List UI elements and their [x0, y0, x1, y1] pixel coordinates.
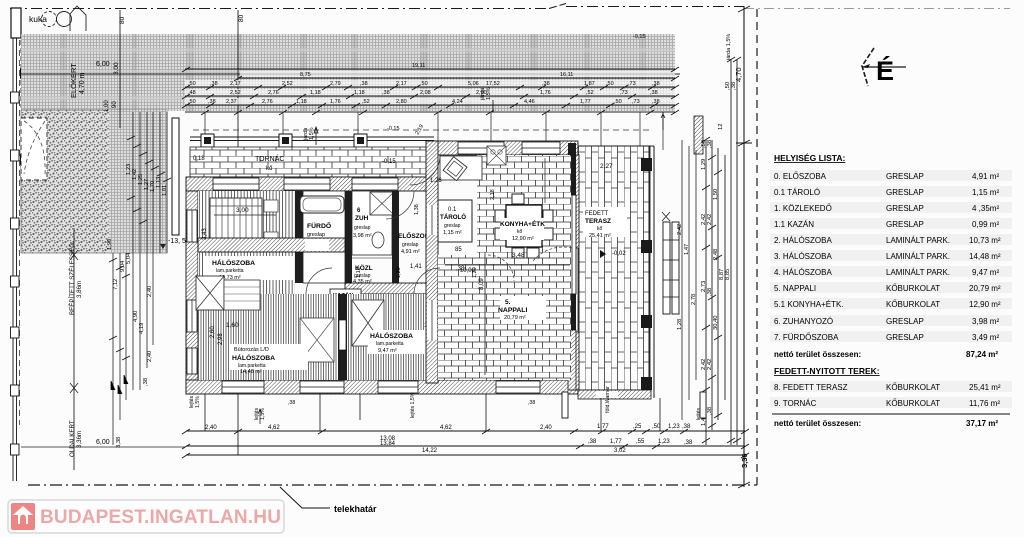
svg-text:2,40: 2,40	[205, 425, 217, 431]
compass north arrow	[862, 48, 906, 86]
svg-text:,50: ,50	[420, 81, 428, 87]
left horizontal wall	[198, 238, 345, 252]
svg-text:1,23: 1,23	[658, 439, 670, 445]
boundary faint continuation to right edge	[744, 8, 1010, 10]
bedroom4 labels	[368, 330, 440, 354]
svg-text:3,86m: 3,86m	[76, 281, 83, 298]
svg-text:3,38: 3,38	[116, 437, 122, 448]
svg-text:KŐBURKOLAT: KŐBURKOLAT	[886, 383, 940, 392]
svg-text:lejtés 1,5%: lejtés 1,5%	[410, 392, 416, 418]
svg-text:FÜRDŐ: FÜRDŐ	[307, 221, 331, 230]
right dimension line 4,70 solid vertical	[743, 6, 745, 487]
kitchen table	[506, 205, 542, 247]
svg-text:2,60: 2,60	[210, 326, 216, 338]
svg-text:1,47: 1,47	[684, 244, 690, 255]
svg-text:14,22: 14,22	[422, 448, 438, 454]
svg-text:1,87: 1,87	[584, 81, 595, 87]
svg-text:7. FÜRDŐSZOBA: 7. FÜRDŐSZOBA	[774, 333, 839, 342]
svg-text:1,60: 1,60	[226, 322, 239, 329]
svg-text:1,01: 1,01	[162, 185, 168, 196]
bedroom4 floor	[347, 294, 480, 380]
svg-text:ZUH: ZUH	[355, 215, 369, 222]
svg-text:0.1 TÁROLÓ: 0.1 TÁROLÓ	[774, 188, 820, 197]
svg-text:13,84: 13,84	[380, 441, 396, 447]
right posts columns detail	[663, 222, 679, 314]
room 2 haloszoba floor parquet	[198, 191, 295, 238]
column axis verticals	[205, 112, 663, 150]
room list table	[772, 153, 1010, 428]
west wall	[186, 191, 198, 394]
gable mark	[70, 6, 86, 31]
svg-text:,38: ,38	[542, 81, 550, 87]
terrace east edge double line	[649, 146, 654, 398]
svg-text:,55: ,55	[636, 439, 645, 445]
svg-text:OLDALKERT: OLDALKERT	[69, 420, 76, 457]
svg-text:KŐBURKOLAT: KŐBURKOLAT	[886, 399, 940, 408]
wardrobe right of b4	[450, 300, 478, 352]
svg-text:2,52: 2,52	[282, 81, 293, 87]
svg-text:1. KÖZLEKEDŐ: 1. KÖZLEKEDŐ	[774, 204, 832, 213]
wall bedroom3/4	[338, 294, 347, 380]
svg-text:1,5%: 1,5%	[195, 396, 201, 408]
svg-text:greslap: greslap	[307, 232, 325, 238]
svg-text:4,70: 4,70	[734, 67, 743, 82]
svg-text:6. ZUHANYOZÓ: 6. ZUHANYOZÓ	[774, 317, 833, 326]
svg-text:,38: ,38	[528, 400, 535, 406]
svg-text:2,40: 2,40	[540, 425, 552, 431]
svg-text:3,00: 3,00	[113, 62, 120, 75]
svg-text:-0,02: -0,02	[612, 251, 626, 257]
upper dim cluster verticals	[133, 112, 167, 390]
window openings north wall	[213, 178, 398, 190]
south wall	[186, 380, 578, 394]
svg-text:LAMINÁLT PARK.: LAMINÁLT PARK.	[886, 252, 950, 261]
svg-text:greslap: greslap	[444, 223, 461, 229]
svg-text:2,37: 2,37	[226, 99, 237, 105]
svg-text:14,48 m²: 14,48 m²	[240, 369, 262, 375]
svg-text:GRESLAP: GRESLAP	[886, 204, 924, 213]
lower gate dashed rect	[21, 155, 52, 215]
tick on 4,70 line top	[736, 6, 752, 488]
svg-text:3,49 m²: 3,49 m²	[972, 333, 999, 342]
svg-text:lam.parketta: lam.parketta	[376, 341, 404, 347]
svg-text:80: 80	[238, 14, 245, 22]
svg-text:1,23: 1,23	[668, 424, 680, 430]
kitchen label	[500, 218, 544, 240]
dim line at band bottom	[185, 111, 675, 113]
svg-text:5,06: 5,06	[468, 81, 479, 87]
kuka bins circles	[42, 12, 57, 27]
svg-text:0.1: 0.1	[448, 207, 457, 213]
porch railing top	[190, 137, 434, 141]
svg-text:TORNÁC: TORNÁC	[255, 154, 284, 163]
svg-text:1,15 m²: 1,15 m²	[443, 230, 462, 236]
svg-text:,38: ,38	[684, 440, 693, 446]
door swing arcs	[306, 155, 572, 294]
svg-text:3,00: 3,00	[236, 207, 249, 214]
svg-text:-0,15: -0,15	[382, 159, 396, 165]
svg-text:1,76: 1,76	[540, 90, 551, 96]
bedroom3 labels	[230, 344, 308, 370]
svg-text:2,52: 2,52	[230, 90, 241, 96]
svg-text:,38: ,38	[288, 400, 295, 406]
svg-text:,38: ,38	[682, 424, 691, 430]
svg-text:2,76: 2,76	[262, 99, 273, 105]
bottom left horizontal dim line	[21, 446, 185, 448]
porch TORNAC brick floor	[190, 147, 434, 177]
svg-text:1,15 m²: 1,15 m²	[972, 188, 999, 197]
white strips behind chain numbers	[185, 71, 675, 105]
svg-text:HÁLÓSZOBA: HÁLÓSZOBA	[232, 353, 275, 362]
svg-text:8. FEDETT TERASZ: 8. FEDETT TERASZ	[774, 383, 848, 392]
svg-text:,38: ,38	[360, 81, 368, 87]
svg-text:2,98: 2,98	[218, 333, 224, 345]
left boundary dashed overlay	[19, 30, 21, 425]
svg-text:1,5%: 1,5%	[486, 87, 492, 100]
west fence slot	[172, 118, 179, 235]
svg-text:4,62: 4,62	[440, 425, 452, 431]
svg-text:1,38: 1,38	[414, 204, 420, 215]
plot boundary telekhatar top dash-dot line	[10, 4, 744, 9]
svg-text:,38: ,38	[652, 81, 660, 87]
right vertical dimension chain	[706, 60, 737, 445]
svg-text:1,28: 1,28	[677, 319, 683, 330]
left fence double line	[13, 33, 17, 481]
svg-text:17,52: 17,52	[486, 81, 500, 87]
svg-text:4,24: 4,24	[452, 99, 463, 105]
svg-text:,38: ,38	[208, 99, 216, 105]
kitchen counter top	[440, 156, 482, 180]
svg-text:5.: 5.	[505, 299, 511, 306]
svg-text:kő: kő	[517, 229, 523, 235]
kitchen north wall	[434, 141, 578, 155]
svg-text:1,26: 1,26	[430, 178, 442, 184]
wall between nappali and terrace	[571, 155, 579, 390]
bathtub	[300, 196, 344, 213]
svg-text:1,18: 1,18	[354, 90, 365, 96]
svg-text:4,46: 4,46	[524, 99, 535, 105]
svg-text:GRESLAP: GRESLAP	[886, 317, 924, 326]
svg-text:HÁLÓSZOBA: HÁLÓSZOBA	[370, 331, 413, 340]
top-left corner post	[11, 8, 21, 38]
wc	[372, 232, 384, 248]
svg-text:12,90 m²: 12,90 m²	[969, 300, 1001, 309]
svg-text:,38: ,38	[210, 81, 218, 87]
chain numbers row labels	[188, 63, 660, 105]
svg-text:3,43: 3,43	[202, 228, 208, 240]
lower left bedroom3 floor	[198, 294, 338, 380]
svg-text:1,20: 1,20	[396, 267, 402, 278]
svg-text:2,76: 2,76	[268, 90, 279, 96]
svg-text:1,00: 1,00	[104, 100, 110, 112]
north wall left section with hatch	[186, 177, 434, 191]
svg-text:greslap: greslap	[402, 242, 419, 248]
middle horizontal wall	[345, 283, 488, 294]
svg-text:1,29: 1,29	[701, 159, 707, 170]
svg-text:3,98 m²: 3,98 m²	[972, 317, 999, 326]
dark chimney block	[568, 143, 576, 195]
svg-text:8,85: 8,85	[725, 269, 731, 280]
svg-text:25,41 m²: 25,41 m²	[969, 383, 1001, 392]
svg-text:GRESLAP: GRESLAP	[886, 220, 924, 229]
svg-text:1,76: 1,76	[330, 99, 341, 105]
svg-text:0,99 m²: 0,99 m²	[972, 220, 999, 229]
svg-text:,50: ,50	[606, 81, 614, 87]
verticals from house to bottom chain	[205, 394, 660, 431]
X hatch square in b4	[352, 300, 384, 346]
svg-text:-0,15: -0,15	[387, 126, 400, 132]
nappali floor already brick; label	[500, 296, 546, 320]
front garden hatched band ELOKERT	[21, 34, 675, 111]
bottom dimension chains	[186, 431, 745, 455]
terrace south posts row	[578, 390, 651, 399]
svg-text:2,40: 2,40	[147, 351, 153, 362]
svg-text:LAMINÁLT PARK.: LAMINÁLT PARK.	[886, 236, 950, 245]
svg-text:3,36m: 3,36m	[76, 431, 83, 448]
terrace top rail	[578, 145, 654, 147]
svg-text:lam.parketta: lam.parketta	[216, 268, 244, 274]
svg-text:1,41: 1,41	[410, 264, 422, 270]
svg-text:4,91 m²: 4,91 m²	[972, 172, 999, 181]
svg-text:2,08: 2,08	[420, 90, 431, 96]
washbasin	[325, 239, 341, 251]
svg-text:,73: ,73	[628, 81, 636, 87]
table row shading	[770, 170, 1012, 408]
horizontal centre line through band	[21, 73, 680, 75]
svg-text:3,02: 3,02	[614, 448, 626, 454]
svg-text:,25: ,25	[633, 424, 642, 430]
bedroom3 furniture white	[196, 276, 224, 310]
left stipple block	[21, 110, 167, 253]
svg-text:1,15: 1,15	[356, 267, 362, 278]
svg-text:4,70 m: 4,70 m	[79, 72, 86, 94]
hob unit	[487, 146, 506, 165]
svg-text:1,50: 1,50	[713, 189, 719, 200]
svg-text:LAMINÁLT PARK.: LAMINÁLT PARK.	[886, 268, 950, 277]
svg-text:,48: ,48	[188, 90, 196, 96]
svg-text:,50: ,50	[188, 99, 196, 105]
svg-text:kő: kő	[597, 226, 603, 232]
logo house icon	[11, 503, 35, 530]
svg-text:4 ,35m²: 4 ,35m²	[972, 204, 999, 213]
svg-text:85: 85	[455, 247, 462, 253]
svg-text:FEDETT: FEDETT	[585, 211, 609, 217]
svg-text:1,90: 1,90	[107, 239, 113, 250]
svg-text:,38: ,38	[650, 90, 658, 96]
svg-text:,52: ,52	[586, 90, 594, 96]
left dim vertical line with bowties	[73, 228, 75, 470]
svg-text:3,48: 3,48	[512, 252, 525, 259]
svg-text:2,80: 2,80	[396, 99, 407, 105]
separator line	[772, 413, 1010, 415]
svg-text:5.1 KONYHA+ÉTK.: 5.1 KONYHA+ÉTK.	[774, 300, 844, 309]
svg-text:1,5%: 1,5%	[309, 127, 315, 140]
wall zuh/eloszoba	[392, 191, 399, 283]
svg-text:2,18: 2,18	[490, 189, 496, 200]
svg-text:6,00: 6,00	[96, 61, 110, 68]
downpipe near band end	[694, 116, 703, 154]
gate cutout white	[21, 118, 47, 180]
svg-text:GRESLAP: GRESLAP	[886, 333, 924, 342]
svg-text:20,79 m²: 20,79 m²	[969, 284, 1001, 293]
kazan closet	[330, 289, 361, 315]
svg-text:KŐBURKOLAT: KŐBURKOLAT	[886, 300, 940, 309]
svg-text:2. HÁLÓSZOBA: 2. HÁLÓSZOBA	[774, 236, 832, 245]
wall bath/zuh	[345, 191, 352, 283]
top dimension chain lines	[185, 69, 675, 105]
svg-text:2,17: 2,17	[396, 81, 407, 87]
chain tick marks row1	[182, 67, 679, 108]
svg-text:,38: ,38	[707, 140, 713, 148]
svg-text:,38: ,38	[588, 439, 597, 445]
taroló room small	[438, 200, 472, 242]
kitchen floor stone	[477, 155, 571, 255]
bath room furdo	[303, 191, 345, 283]
gate cutout arcs	[24, 121, 45, 176]
svg-text:ELŐKERT: ELŐKERT	[69, 63, 78, 98]
telekhatar leader line	[280, 487, 330, 508]
svg-text:föld.Warnar: föld.Warnar	[605, 386, 611, 413]
ingatlan.hu logo box	[8, 500, 284, 533]
extra right cluster verticals	[682, 140, 696, 420]
diamond unit	[443, 157, 467, 181]
svg-text:0. ELŐSZOBA: 0. ELŐSZOBA	[774, 172, 827, 181]
svg-text:KONYHA+ÉTK: KONYHA+ÉTK	[500, 219, 545, 228]
svg-text:8,75: 8,75	[300, 72, 311, 78]
svg-text:nettó terület összesen:: nettó terület összesen:	[774, 350, 861, 359]
svg-text:,38: ,38	[143, 378, 149, 386]
svg-text:kő: kő	[266, 166, 273, 172]
svg-text:6,00: 6,00	[96, 439, 110, 446]
svg-text:KŐBURKOLAT: KŐBURKOLAT	[886, 284, 940, 293]
svg-text:1,5%: 1,5%	[260, 408, 266, 420]
svg-text:,73: ,73	[620, 90, 628, 96]
terrace FEDETT TERASZ brick floor	[578, 146, 650, 390]
fence post symbols	[11, 92, 20, 455]
svg-text:HELYISÉG LISTA:: HELYISÉG LISTA:	[774, 153, 845, 163]
wall entry/nappali vertical	[426, 141, 438, 383]
svg-text:5,04: 5,04	[126, 252, 132, 264]
svg-text:11,76 m²: 11,76 m²	[969, 399, 1000, 408]
right boundary dashed vertical	[756, 9, 758, 486]
svg-text:5. NAPPALI: 5. NAPPALI	[774, 284, 816, 293]
plot boundary bottom dash-dot line	[28, 484, 757, 486]
svg-text:-0,15: -0,15	[633, 34, 646, 40]
bed in room2	[210, 198, 262, 246]
terrace east posts	[641, 158, 652, 390]
leader arrows below band	[314, 100, 665, 145]
svg-text:1.1 KAZÁN: 1.1 KAZÁN	[774, 220, 814, 229]
zuhanyozo room	[352, 191, 392, 255]
band darker streaks	[60, 34, 646, 111]
shower tray	[370, 192, 394, 215]
wall room2/bath	[295, 191, 303, 283]
right chain rotated labels	[701, 82, 737, 426]
svg-text:telekhatár: telekhatár	[334, 504, 377, 514]
svg-text:2,42: 2,42	[677, 224, 683, 235]
svg-text:kuka: kuka	[29, 14, 47, 24]
svg-text:2,42: 2,42	[707, 214, 713, 225]
svg-text:,50: ,50	[614, 99, 622, 105]
svg-text:4,90: 4,90	[133, 311, 139, 322]
svg-text:,38: ,38	[652, 99, 660, 105]
svg-text:HÁLÓSZOBA: HÁLÓSZOBA	[212, 258, 255, 267]
svg-text:FEDETT-NYITOTT TEREK:: FEDETT-NYITOTT TEREK:	[774, 366, 880, 376]
gate swing arcs	[24, 42, 50, 104]
svg-text:nettó terület összesen:: nettó terület összesen:	[774, 419, 861, 428]
svg-text:4,62: 4,62	[268, 425, 280, 431]
bottom dim numbers	[205, 424, 693, 454]
svg-text:,38: ,38	[731, 82, 737, 90]
svg-text:14,48 m²: 14,48 m²	[969, 252, 1001, 261]
svg-text:8,09: 8,09	[479, 278, 485, 290]
svg-text:20,79 m²: 20,79 m²	[504, 315, 526, 321]
roof overhang dashed	[193, 129, 650, 131]
svg-text:,73: ,73	[632, 99, 640, 105]
svg-text:2,48: 2,48	[713, 249, 719, 260]
svg-text:7,12: 7,12	[113, 279, 119, 290]
svg-text:1,18: 1,18	[296, 99, 307, 105]
svg-text:4,91 m²: 4,91 m²	[401, 249, 420, 255]
terrace label	[583, 207, 627, 237]
right chain ticks	[702, 57, 741, 443]
svg-text:2,78: 2,78	[691, 294, 697, 305]
svg-text:10,73 m²: 10,73 m²	[969, 236, 1001, 245]
rotated dim numbers left cluster	[107, 239, 153, 448]
svg-text:1,77: 1,77	[580, 99, 591, 105]
svg-text:1,18: 1,18	[310, 90, 321, 96]
house outer outline	[186, 116, 703, 399]
svg-text:NAPPALI: NAPPALI	[498, 307, 527, 314]
cluster tick marks	[109, 258, 130, 394]
svg-text:greslap: greslap	[354, 225, 371, 231]
lejtes labels	[254, 386, 708, 420]
svg-text:3,98 m²: 3,98 m²	[353, 233, 372, 239]
svg-text:,38: ,38	[707, 288, 713, 296]
svg-text:0,18: 0,18	[193, 156, 205, 162]
room2 label block	[203, 256, 293, 280]
svg-text:3. HÁLÓSZOBA: 3. HÁLÓSZOBA	[774, 252, 832, 261]
svg-text:GRESLAP: GRESLAP	[886, 172, 924, 181]
long vertical dim line x238	[237, 10, 239, 455]
svg-text:,38: ,38	[382, 90, 390, 96]
svg-text:9,47 m²: 9,47 m²	[972, 268, 999, 277]
kuka dim vertical line x120	[119, 10, 121, 128]
svg-text:GRESLAP: GRESLAP	[886, 188, 924, 197]
interior small dim lines	[445, 264, 570, 266]
svg-text:80: 80	[119, 16, 126, 24]
west fence slot lower	[197, 205, 203, 241]
svg-text:2,40: 2,40	[147, 286, 153, 297]
svg-text:1,77: 1,77	[610, 439, 622, 445]
bottom ticks	[182, 429, 749, 458]
left hatch column	[109, 110, 167, 253]
svg-text:,52: ,52	[362, 99, 370, 105]
gate dashed rectangle	[21, 39, 52, 107]
svg-text:2,42: 2,42	[707, 359, 713, 370]
svg-text:12: 12	[718, 124, 724, 130]
svg-text:TÁROLÓ: TÁROLÓ	[440, 213, 466, 221]
svg-text:2,17: 2,17	[230, 81, 241, 87]
svg-text:25,41 m²: 25,41 m²	[589, 233, 611, 239]
svg-text:90: 90	[112, 101, 118, 108]
small posts below house	[562, 392, 568, 418]
svg-text:12,90 m²: 12,90 m²	[512, 236, 534, 242]
svg-text:Bútorozás L/D: Bútorozás L/D	[234, 347, 269, 353]
small rotated annotations below band	[303, 34, 732, 141]
svg-text:16,11: 16,11	[560, 72, 573, 78]
svg-text:TERASZ: TERASZ	[585, 218, 611, 225]
